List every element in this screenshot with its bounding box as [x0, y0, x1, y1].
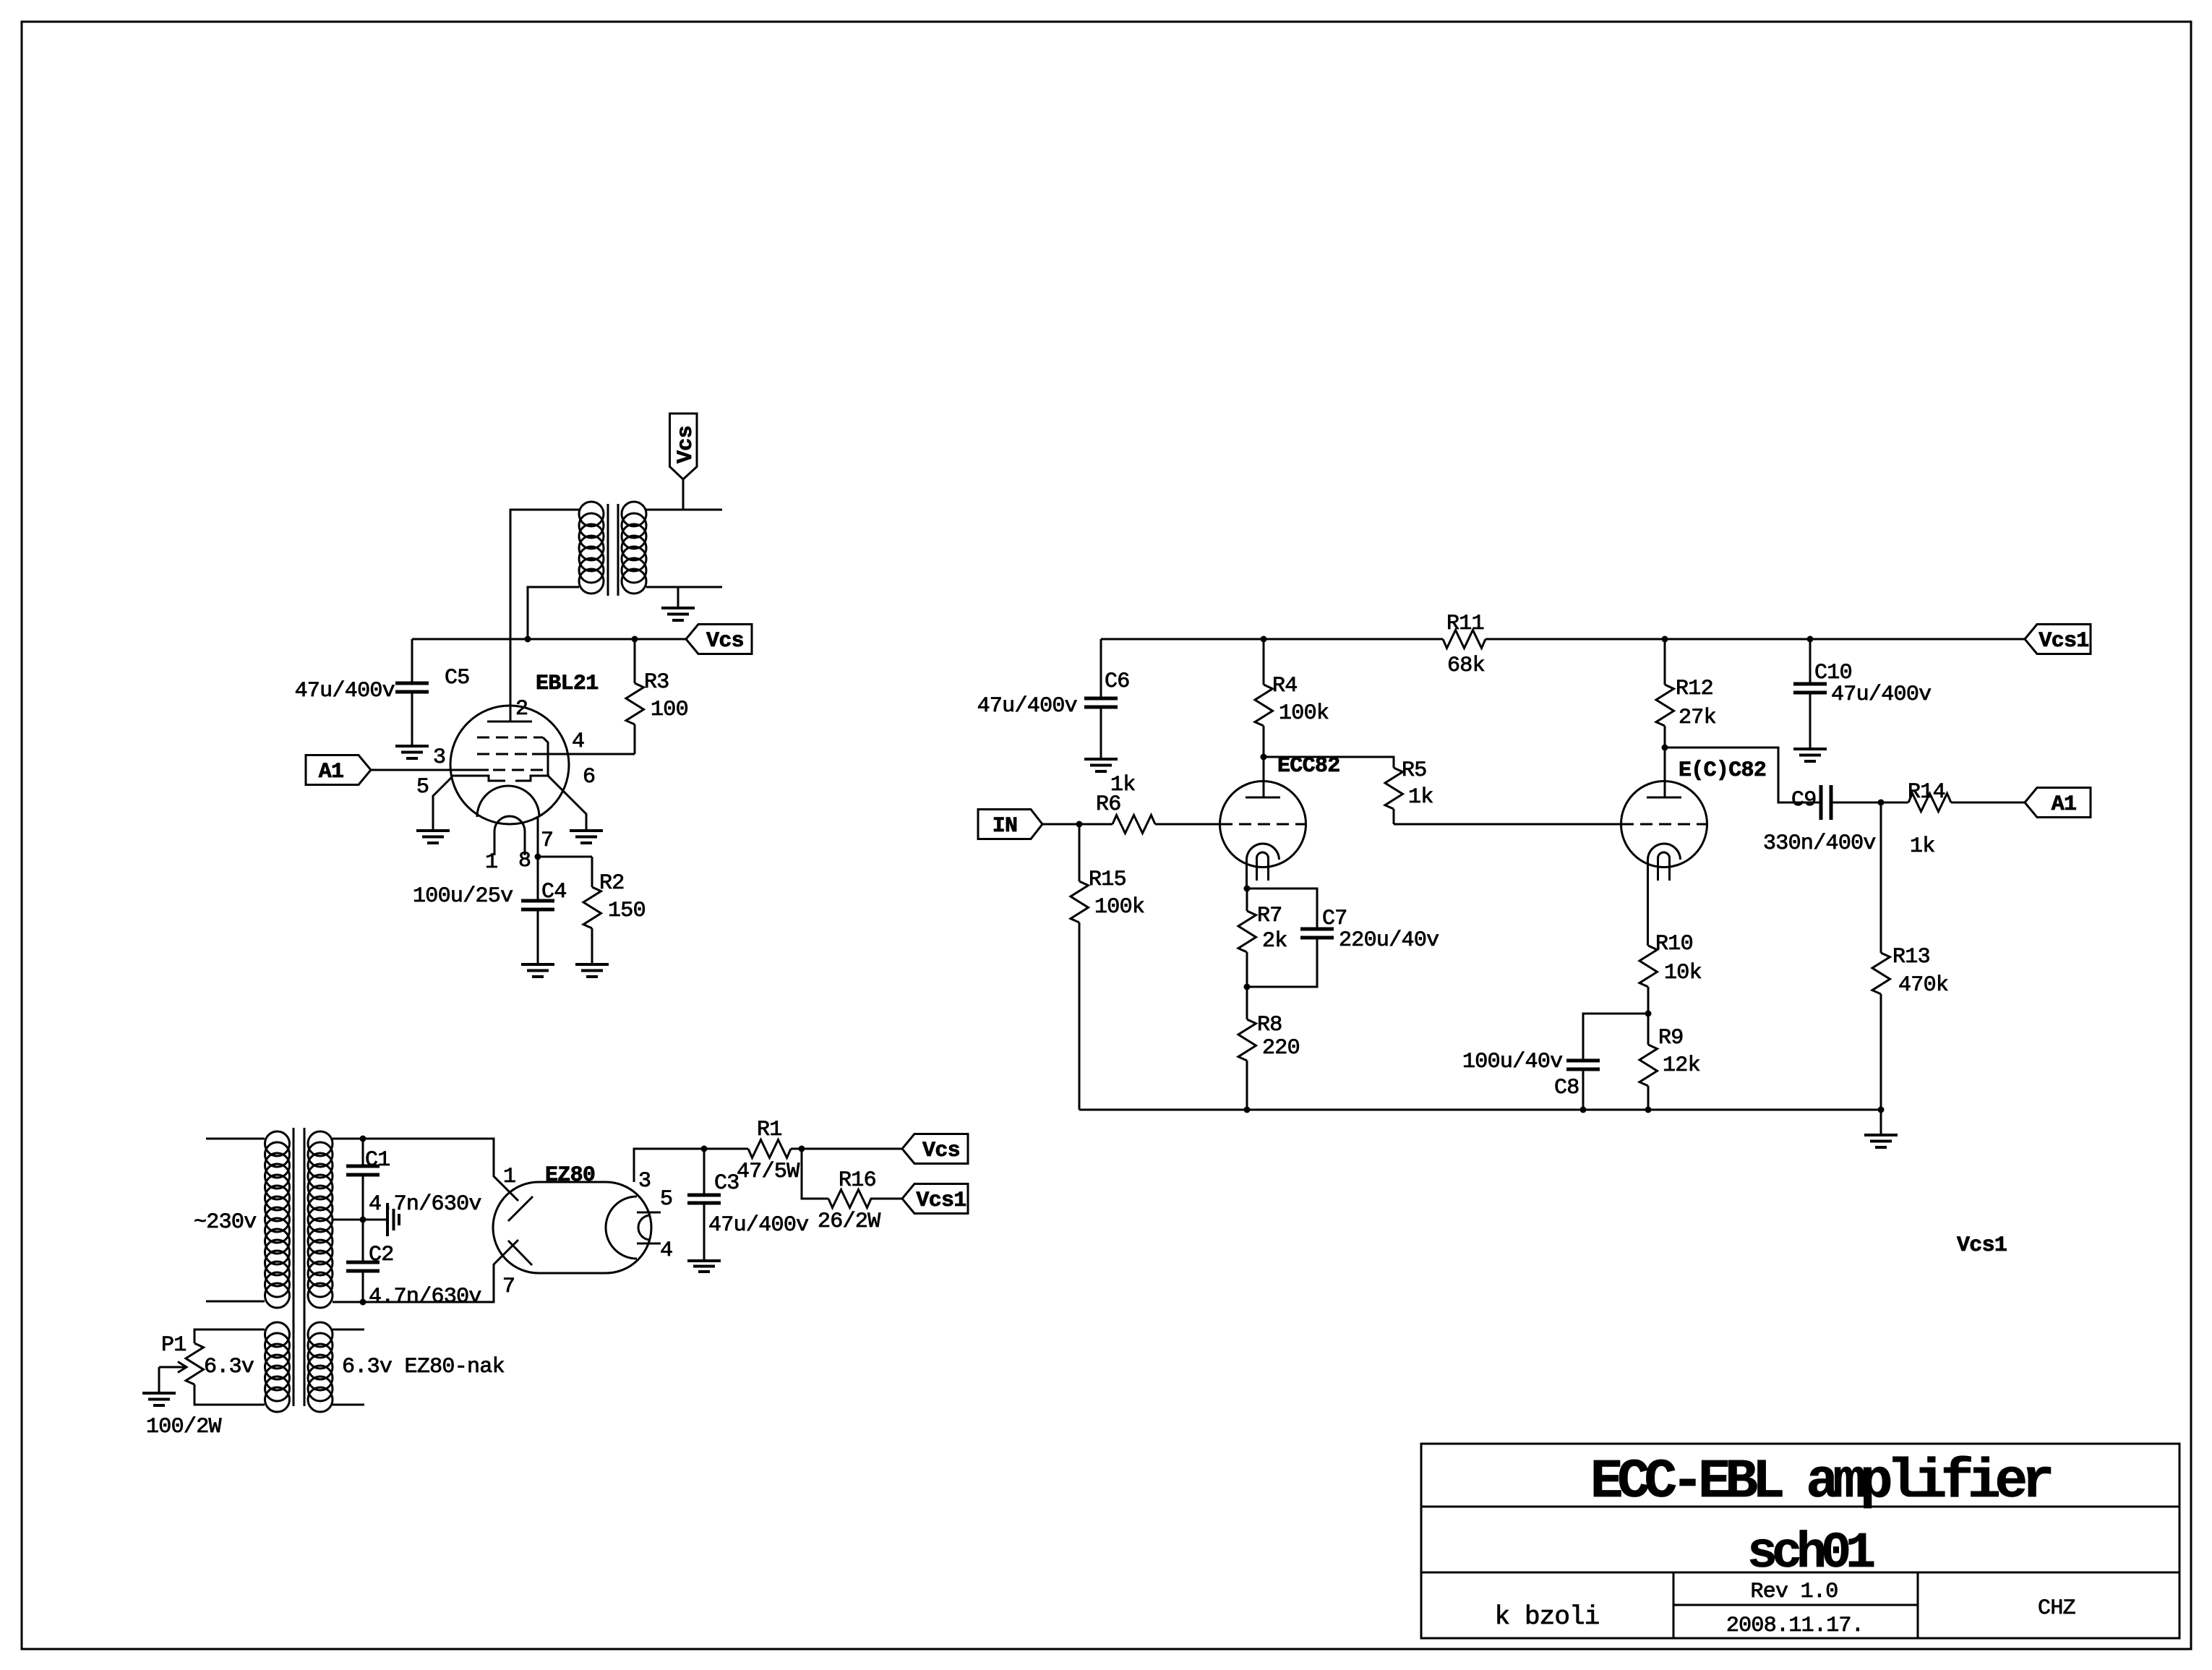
svg-text:1k: 1k: [1408, 785, 1433, 810]
svg-text:7: 7: [541, 828, 553, 853]
wire pin 3 to C3/R1: [634, 1149, 748, 1182]
junction: [1261, 754, 1267, 761]
junction: [1645, 1107, 1652, 1113]
resistor R4: [1255, 639, 1273, 757]
svg-text:47/5W: 47/5W: [737, 1160, 800, 1184]
wire ground bus: [1079, 1109, 1881, 1111]
svg-text:R16: R16: [839, 1168, 876, 1193]
svg-text:A1: A1: [2052, 792, 2077, 817]
junction: [701, 1146, 708, 1152]
EBL21 grid g3 dashes: [477, 737, 548, 776]
wire wiper to ground: [158, 1367, 160, 1393]
net flag A1 (input to EBL21): [306, 755, 371, 785]
svg-text:100k: 100k: [1094, 895, 1144, 920]
net flag Vcs1 (top bus): [2025, 625, 2091, 654]
svg-text:R15: R15: [1089, 868, 1126, 892]
P1 wiper arrow: [159, 1362, 187, 1373]
resistor R10: [1639, 946, 1658, 1014]
capacitor C5: [395, 639, 429, 746]
svg-text:~230v: ~230v: [194, 1210, 257, 1235]
transformer T1 secondary winding: [622, 502, 646, 594]
junction: [1076, 821, 1083, 828]
V2 cathode arc: [1647, 844, 1680, 860]
capacitor C4: [521, 857, 554, 964]
transformer T2 6.3v winding right: [308, 1322, 333, 1412]
transformer T2 core: [293, 1128, 304, 1406]
wire R4 to R5: [1264, 757, 1394, 768]
resistor R5: [1385, 768, 1403, 824]
resistor R6: [1113, 815, 1220, 834]
svg-text:R13: R13: [1892, 945, 1930, 969]
tube ECC82 V2 envelope: [1621, 782, 1707, 868]
EBL21 diode plate left: [452, 776, 505, 781]
svg-text:C10: C10: [1814, 661, 1852, 685]
wire primary top to anode: [510, 510, 579, 721]
resistor R13: [1872, 802, 1890, 1110]
wire flag Vcs to transformer top: [682, 479, 685, 510]
junction: [1662, 636, 1668, 643]
junction: [525, 636, 531, 643]
svg-text:27k: 27k: [1679, 706, 1716, 730]
svg-text:47u/400v: 47u/400v: [977, 694, 1077, 719]
junction: [799, 1146, 805, 1152]
capacitor C1: [346, 1139, 380, 1220]
svg-text:1: 1: [503, 1165, 515, 1189]
svg-text:5: 5: [660, 1187, 672, 1212]
svg-text:47u/400v: 47u/400v: [295, 679, 395, 703]
svg-text:330n/400v: 330n/400v: [1763, 831, 1876, 856]
svg-text:8: 8: [518, 849, 531, 873]
resistor R3: [626, 639, 644, 754]
svg-text:26/2W: 26/2W: [818, 1209, 880, 1234]
net flag Vcs (PSU out): [902, 1134, 968, 1164]
EZ80 pin4 stub: [637, 1243, 661, 1245]
svg-text:R8: R8: [1257, 1013, 1282, 1037]
ground (secondary): [661, 608, 695, 620]
svg-text:R4: R4: [1272, 674, 1298, 698]
svg-text:3: 3: [638, 1169, 651, 1194]
capacitor C8 (bypass): [1566, 1014, 1648, 1110]
junction: [1244, 886, 1251, 892]
svg-text:1k: 1k: [1910, 834, 1935, 859]
wire pin 5 to ground: [433, 777, 452, 831]
chassis ground (mid tap): [387, 1203, 399, 1236]
svg-text:R5: R5: [1402, 758, 1427, 783]
svg-text:R9: R9: [1658, 1026, 1684, 1050]
svg-text:IN: IN: [993, 814, 1018, 839]
svg-text:Vcs: Vcs: [674, 426, 698, 463]
transformer T1 core: [608, 504, 618, 596]
resistor R16: [828, 1190, 902, 1208]
wire 6.3v right bottom stub: [333, 1404, 364, 1406]
svg-text:k bzoli: k bzoli: [1495, 1602, 1600, 1632]
svg-text:E(C)C82: E(C)C82: [1679, 758, 1766, 783]
junction: [360, 1136, 366, 1142]
svg-text:C6: C6: [1105, 669, 1130, 694]
svg-text:2: 2: [515, 697, 528, 721]
ground (C3): [687, 1261, 721, 1272]
svg-text:1k: 1k: [1110, 773, 1136, 797]
svg-text:Vcs: Vcs: [922, 1139, 960, 1163]
junction: [1662, 745, 1668, 751]
svg-text:12k: 12k: [1663, 1053, 1700, 1078]
svg-text:C8: C8: [1554, 1076, 1579, 1100]
wire V1 cathode down: [1246, 860, 1248, 888]
net flag Vcs1 (PSU out): [902, 1184, 968, 1214]
svg-text:3: 3: [433, 745, 445, 770]
EZ80 cathode arc outer: [606, 1196, 637, 1259]
svg-text:C1: C1: [365, 1148, 390, 1173]
wire secondary top: [646, 509, 722, 511]
V1 cathode arc: [1246, 844, 1279, 860]
svg-text:2k: 2k: [1262, 929, 1287, 954]
tube EBL21 envelope: [450, 706, 569, 824]
EZ80 cathode arc inner: [638, 1215, 651, 1240]
EZ80 anode plate upper: [508, 1196, 533, 1221]
title block frame: [1421, 1444, 2179, 1638]
transformer T1 primary winding: [579, 502, 604, 594]
wire IN to R6: [1042, 823, 1113, 826]
svg-text:Vcs1: Vcs1: [2039, 629, 2088, 654]
junction: [1878, 800, 1885, 806]
wire to Vcs flag: [802, 1148, 902, 1150]
net flag Vcs (right of bus): [686, 625, 752, 654]
junction: [360, 1217, 366, 1223]
svg-text:1: 1: [485, 850, 497, 875]
EZ80 anode plate lower: [508, 1241, 532, 1265]
ground (bus): [1864, 1135, 1898, 1147]
wire Vcs1 top bus: [1101, 638, 2025, 641]
ground (C6): [1084, 759, 1118, 771]
transformer T2 primary winding: [265, 1131, 290, 1308]
svg-text:47u/400v: 47u/400v: [1831, 682, 1931, 707]
capacitor C9: [1821, 785, 1881, 820]
svg-text:R3: R3: [644, 670, 669, 695]
capacitor C3: [687, 1149, 721, 1261]
svg-text:R2: R2: [599, 871, 625, 896]
ground (R2): [575, 964, 609, 977]
junction: [632, 636, 638, 643]
ground (C10): [1793, 749, 1827, 761]
resistor R11: [1443, 630, 1486, 648]
svg-text:sch01: sch01: [1747, 1525, 1874, 1583]
resistor R14: [1881, 794, 2025, 812]
wire secondary bottom: [646, 586, 722, 588]
ground (pin5): [416, 831, 450, 843]
wire cathode to R2: [538, 856, 592, 858]
svg-text:5: 5: [416, 775, 429, 800]
svg-text:2008.11.17.: 2008.11.17.: [1726, 1614, 1864, 1638]
resistor R8: [1238, 987, 1256, 1110]
svg-text:150: 150: [608, 899, 646, 923]
V2 anode: [1647, 748, 1681, 797]
wire mid tap: [333, 1219, 387, 1221]
wire pin 6 to ground: [548, 776, 586, 831]
transformer T2 6.3v winding left: [265, 1322, 290, 1412]
svg-text:Vcs1: Vcs1: [1957, 1233, 2007, 1258]
svg-text:C3: C3: [714, 1171, 740, 1196]
svg-text:47u/400v: 47u/400v: [708, 1213, 808, 1238]
wire down to R16: [802, 1149, 828, 1199]
svg-text:6.3v EZ80-nak: 6.3v EZ80-nak: [342, 1355, 505, 1379]
net flag Vcs (vertical, top): [670, 414, 699, 479]
wire pin 7 / cathode down: [537, 817, 539, 857]
EZ80 pin5 stub: [637, 1212, 661, 1214]
EBL21 anode bar: [487, 721, 532, 723]
ground (pin6): [570, 831, 603, 843]
junction: [1645, 1011, 1652, 1017]
wire R5 to V2 grid: [1394, 823, 1621, 826]
svg-text:Vcs: Vcs: [706, 629, 744, 654]
tube EZ80 envelope: [493, 1182, 651, 1273]
junction: [1244, 1107, 1251, 1113]
svg-text:100/2W: 100/2W: [146, 1415, 222, 1439]
svg-text:6.3v: 6.3v: [204, 1355, 254, 1379]
V2 cathode hook: [1658, 852, 1670, 881]
ground (C4): [521, 964, 554, 977]
svg-text:ECC-EBL amplifier: ECC-EBL amplifier: [1590, 1451, 2052, 1513]
wire 6.3v left bottom: [194, 1384, 265, 1405]
svg-text:R11: R11: [1446, 612, 1484, 636]
EBL21 diode plate right: [515, 776, 549, 781]
wire primary top stub: [206, 1138, 265, 1140]
resistor R12: [1656, 639, 1674, 748]
EBL21 grid g2 dashes: [477, 753, 532, 755]
wire pin4 to R3: [532, 753, 635, 755]
svg-text:C5: C5: [445, 666, 470, 690]
wire anode to C9: [1665, 748, 1821, 802]
svg-text:R7: R7: [1257, 904, 1282, 928]
EBL21 cathode hook: [494, 816, 525, 855]
svg-text:68k: 68k: [1447, 654, 1485, 678]
junction: [1580, 1107, 1587, 1113]
junction: [1261, 636, 1267, 643]
resistor R7: [1238, 888, 1256, 987]
capacitor C2: [346, 1220, 380, 1302]
svg-text:4.7n/630v: 4.7n/630v: [369, 1285, 481, 1309]
svg-text:100: 100: [651, 698, 688, 722]
svg-text:R12: R12: [1676, 677, 1713, 701]
capacitor C10: [1793, 639, 1827, 749]
junction: [1244, 984, 1251, 990]
wire 6.3v right top stub: [333, 1329, 364, 1331]
svg-text:100u/25v: 100u/25v: [413, 884, 513, 909]
tube ECC82 V1 envelope: [1220, 782, 1306, 868]
svg-text:100u/40v: 100u/40v: [1462, 1050, 1562, 1074]
capacitor C6: [1084, 639, 1118, 759]
wire A1 to grid: [371, 769, 489, 771]
V2 grid dashes: [1621, 823, 1707, 826]
wire primary bottom to Vcs bus: [528, 587, 579, 639]
svg-text:7: 7: [502, 1275, 515, 1299]
wire secondary bottom to EZ80 pin7: [333, 1240, 518, 1302]
svg-text:4: 4: [660, 1238, 672, 1263]
svg-text:C9: C9: [1791, 788, 1817, 813]
wire primary bottom stub: [206, 1301, 265, 1303]
svg-text:100k: 100k: [1279, 701, 1329, 726]
junction: [1807, 636, 1814, 643]
net flag IN: [978, 810, 1042, 839]
ground (P1): [142, 1393, 176, 1405]
svg-text:Rev 1.0: Rev 1.0: [1750, 1580, 1838, 1604]
resistor R15: [1071, 824, 1089, 1110]
svg-text:4: 4: [572, 729, 584, 754]
transformer T2 HV secondary winding: [308, 1131, 333, 1308]
svg-text:6: 6: [583, 765, 595, 789]
svg-text:10k: 10k: [1664, 961, 1702, 985]
wire secondary ground stub: [677, 587, 680, 608]
svg-text:R1: R1: [757, 1118, 782, 1142]
svg-text:A1: A1: [319, 760, 344, 784]
EBL21 cathode arc: [477, 786, 539, 817]
EBL21 grid g1 dashes: [493, 769, 543, 771]
svg-text:220: 220: [1262, 1036, 1300, 1061]
net flag A1 (output): [2025, 788, 2091, 818]
svg-text:ECC82: ECC82: [1277, 754, 1340, 779]
svg-text:R10: R10: [1655, 932, 1693, 956]
wire V2 cathode to R10: [1647, 860, 1649, 946]
wire 6.3v left top: [194, 1329, 265, 1343]
svg-text:EBL21: EBL21: [536, 672, 599, 696]
potentiometer P1: [186, 1343, 204, 1384]
wire Vcs bus: [412, 638, 686, 641]
svg-text:C2: C2: [369, 1243, 394, 1267]
capacitor C7 (parallel): [1247, 888, 1334, 987]
svg-text:C7: C7: [1322, 907, 1347, 931]
svg-text:C4: C4: [541, 880, 567, 904]
svg-text:Vcs1: Vcs1: [916, 1189, 966, 1213]
V1 anode: [1246, 757, 1280, 797]
junction: [1878, 1107, 1885, 1113]
svg-text:EZ80: EZ80: [545, 1163, 595, 1188]
resistor R2: [583, 857, 601, 964]
ground (C5): [395, 746, 429, 758]
junction: [360, 1299, 366, 1306]
wire bus ground stub: [1880, 1110, 1882, 1135]
svg-text:P1: P1: [161, 1333, 187, 1358]
resistor R9: [1639, 1014, 1658, 1110]
wire secondary top to EZ80 pin1: [333, 1139, 518, 1201]
svg-text:R14: R14: [1908, 780, 1945, 805]
junction: [535, 854, 541, 860]
V1 cathode hook: [1257, 852, 1269, 881]
svg-text:4.7n/630v: 4.7n/630v: [369, 1192, 481, 1217]
svg-text:CHZ: CHZ: [2038, 1596, 2075, 1621]
svg-text:220u/40v: 220u/40v: [1339, 928, 1439, 953]
V1 grid dashes: [1220, 823, 1306, 826]
resistor R1: [748, 1140, 802, 1158]
svg-text:470k: 470k: [1898, 973, 1948, 998]
